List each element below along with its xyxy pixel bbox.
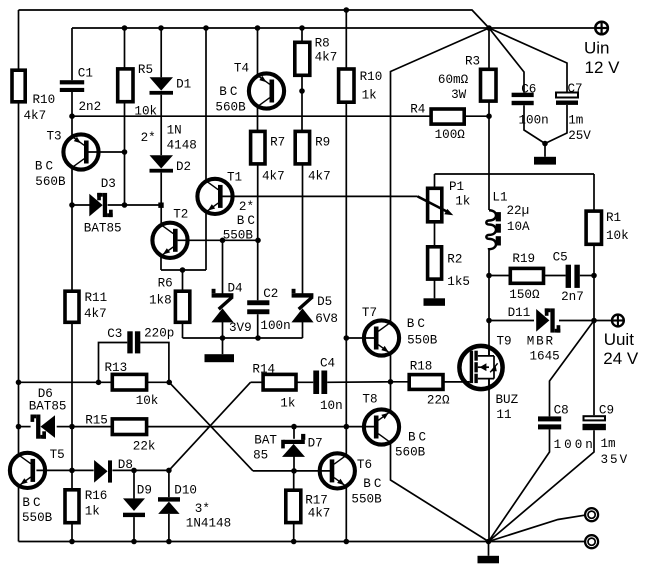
svg-text:BUZ: BUZ (496, 393, 519, 407)
svg-text:35V: 35V (601, 453, 630, 467)
wire D10 top stem (168, 470, 170, 497)
svg-text:MBR: MBR (527, 335, 555, 349)
svg-text:100n: 100n (554, 438, 596, 452)
wire bottom ground rail (19, 541, 585, 543)
svg-text:10k: 10k (134, 105, 157, 119)
wire D4 top stem (222, 240, 224, 293)
wire R16 bottom to ground rail (71, 523, 73, 542)
svg-text:Uuit: Uuit (604, 330, 635, 349)
svg-text:BC: BC (22, 496, 43, 510)
svg-text:R1: R1 (606, 211, 621, 225)
diode D7 BAT85 schottky (253, 434, 323, 463)
wire R1 top stem (593, 174, 595, 211)
wire Uuit node to terminal (594, 320, 612, 322)
wire crossover R13-node to T6 base wire (169, 382, 253, 471)
svg-text:10A: 10A (507, 220, 530, 234)
wire D7 bottom stem (293, 456, 295, 471)
wire left branch T5 emitter to ground rail (18, 487, 20, 542)
capacitor C4 10n (313, 357, 342, 414)
wire T1 collector stem (205, 28, 207, 180)
wire R3 top stem (488, 28, 490, 69)
resistor R9 4k7 (295, 131, 330, 183)
svg-text:Uin: Uin (584, 39, 610, 58)
svg-text:10k: 10k (606, 229, 629, 243)
transistor T1 BC550B (197, 170, 258, 242)
wire R18 to T9 gate (443, 381, 470, 383)
wire D3 anode stem (72, 204, 90, 206)
transistor T3 BC560B (35, 130, 99, 189)
svg-text:3V9: 3V9 (229, 321, 252, 335)
svg-text:24 V: 24 V (603, 349, 639, 368)
capacitor C7 1m 25V electrolytic (556, 82, 591, 143)
svg-text:6V8: 6V8 (315, 312, 338, 326)
wire R8 bottom to R9 top (301, 75, 303, 131)
svg-text:4k7: 4k7 (315, 51, 338, 65)
svg-text:1m: 1m (601, 437, 616, 451)
svg-text:P1: P1 (449, 180, 464, 194)
svg-text:1k5: 1k5 (447, 275, 470, 289)
terminal Uuit +24V (603, 315, 639, 368)
transistor T5 BC550B (10, 448, 65, 525)
wire D2 to T2 collector (160, 173, 162, 225)
label 2* 1N4148 (D1/D2) (141, 124, 197, 153)
wire C2 bottom stem (257, 314, 259, 338)
capacitor C8 100n (538, 403, 596, 452)
wire R4 to R3 junction (464, 115, 489, 117)
resistor R4 100Ohm (410, 102, 465, 142)
resistor R13 10k (105, 361, 159, 408)
wire R5 top stem (124, 28, 126, 69)
wire top border rail (19, 10, 490, 28)
capacitor C9 1m 35V electrolytic (583, 403, 630, 467)
svg-text:85: 85 (253, 448, 268, 462)
wire rail to Uin terminal (489, 27, 595, 29)
wire star to C6 branch (489, 28, 524, 93)
svg-text:R10: R10 (33, 93, 56, 107)
resistor R6 1k8 (149, 277, 190, 323)
wire T6 emitter stem (345, 487, 347, 541)
svg-text:1645: 1645 (530, 350, 560, 364)
wire D9 top stem (133, 470, 135, 498)
svg-text:T4: T4 (234, 62, 249, 76)
wire small-signal ground rail y338 (183, 337, 303, 339)
wire left branch upper (border to R10 top) (18, 10, 20, 70)
wire Uuit node diagonal to C8 (550, 321, 595, 417)
svg-text:11: 11 (496, 408, 511, 422)
svg-text:T6: T6 (357, 458, 372, 472)
wire C4 to driver node (327, 381, 390, 384)
svg-text:550B: 550B (22, 511, 53, 525)
wire R19 to C5 (544, 275, 566, 277)
wire D7 to R17 top (293, 471, 295, 490)
wire left branch R10 bottom to T5 collector (18, 102, 20, 454)
wire T3 base (88, 151, 124, 153)
diode D10 1N4148 (158, 484, 197, 514)
svg-text:R13: R13 (105, 361, 128, 375)
svg-text:1k: 1k (280, 396, 295, 410)
wire R6 bottom stem (182, 322, 184, 338)
wire node y116 (C1/T4 to R4) (72, 115, 431, 117)
wire D9 bottom stem (133, 517, 135, 541)
svg-text:1k8: 1k8 (149, 294, 172, 308)
svg-text:D3: D3 (101, 177, 116, 191)
wire T3 collector to R11 top (71, 168, 73, 292)
wire L1 node to D11 node (488, 276, 490, 321)
svg-text:560B: 560B (35, 175, 66, 189)
wire C6 bottom to Uin ground (524, 105, 545, 143)
ground star (output) (478, 556, 500, 564)
svg-text:550B: 550B (351, 492, 382, 506)
wire D11 anode stem (489, 320, 534, 322)
terminal Uin +12V (584, 22, 620, 77)
svg-text:C8: C8 (554, 403, 569, 417)
svg-text:D5: D5 (317, 295, 332, 309)
transistor T6 BC550B (320, 453, 385, 506)
wire C3 left leg (99, 343, 128, 383)
wire R13 right stub (147, 381, 170, 383)
resistor R19 150Ohm (509, 252, 543, 302)
wire T2 emitter stem (160, 256, 162, 270)
svg-text:R7: R7 (270, 136, 285, 150)
resistor R1 10k (586, 211, 629, 244)
wire Uuit node to C9 top (593, 321, 595, 416)
svg-text:22µ: 22µ (507, 204, 530, 218)
svg-text:BC: BC (35, 159, 56, 173)
svg-text:T3: T3 (47, 130, 62, 144)
wire crossover D8-node to R14 wire (169, 382, 251, 470)
transistor T4 BC560B (215, 62, 284, 115)
svg-text:C2: C2 (263, 287, 278, 301)
svg-text:BAT85: BAT85 (84, 222, 122, 236)
svg-text:550B: 550B (223, 229, 254, 243)
svg-text:R9: R9 (315, 136, 330, 150)
diode D2 1N4148 (150, 155, 192, 174)
svg-text:1N: 1N (167, 124, 182, 138)
transistor T2 BC550B (152, 208, 188, 258)
wire R14 to C4 (297, 381, 314, 383)
zener D5 6V8 (291, 289, 338, 326)
capacitor C3 220p (107, 326, 174, 353)
wire D1 top stem (160, 28, 162, 77)
capacitor C5 2n7 (553, 251, 584, 305)
wire T2 base to R7 column (178, 239, 258, 241)
wire D10 bottom stem (168, 514, 170, 542)
wire L1 node to R19 (489, 275, 510, 277)
svg-text:C6: C6 (521, 83, 536, 97)
svg-text:R10: R10 (360, 70, 383, 84)
inductor L1 22u 10A (486, 190, 530, 249)
svg-text:60mΩ: 60mΩ (438, 73, 469, 87)
svg-text:1k: 1k (362, 88, 377, 102)
wire L1 bottom stem (488, 248, 490, 276)
svg-text:D8: D8 (118, 458, 133, 472)
wire node to R15 (72, 426, 112, 428)
wire T6 collector stem (345, 427, 347, 455)
wire R10 bottom to T8 base node (345, 102, 347, 426)
resistor R15 22k (85, 413, 155, 453)
transistor T8 BC560B (362, 393, 429, 460)
svg-text:C3: C3 (107, 327, 122, 341)
mosfet T9 BUZ11 (459, 335, 518, 423)
wire D8 to D9/D10 nodes (112, 469, 168, 471)
svg-text:C9: C9 (599, 403, 614, 417)
svg-text:D1: D1 (176, 78, 191, 92)
svg-text:25V: 25V (568, 129, 591, 143)
svg-text:560B: 560B (215, 101, 246, 115)
diode D3 BAT85 schottky (84, 177, 122, 236)
wire T9 drain (488, 321, 490, 357)
svg-text:220p: 220p (144, 326, 174, 340)
svg-text:D7: D7 (308, 437, 323, 451)
svg-text:2n7: 2n7 (561, 290, 584, 304)
wire star to upper output terminal (489, 515, 585, 541)
wire R11 bottom through D6 node to R16 top (71, 322, 73, 490)
wire D11 cathode to Uuit node (559, 320, 594, 322)
svg-text:R16: R16 (85, 489, 108, 503)
wire T1 base to P1 wiper (222, 195, 418, 197)
svg-text:R15: R15 (85, 413, 108, 427)
wire R1 bottom to C5 node (593, 244, 595, 275)
svg-text:2n2: 2n2 (79, 100, 102, 114)
resistor R14 1k (252, 363, 296, 411)
svg-text:BC: BC (219, 85, 240, 99)
svg-text:2*: 2* (141, 131, 156, 145)
ground small-signal (D4/C2) (205, 354, 235, 362)
svg-text:R18: R18 (410, 360, 433, 374)
svg-text:R6: R6 (158, 277, 173, 291)
wire C1 bottom to T3 emitter (71, 92, 73, 137)
wire C9 bottom diagonal to star ground (489, 430, 595, 541)
wire R13 left wire y382 (19, 381, 113, 383)
svg-text:22k: 22k (133, 440, 156, 454)
wire R15 to T8 base node (147, 426, 347, 428)
label 3* 1N4148 (D8-D10) (186, 502, 231, 531)
wire R10 top stem (345, 10, 347, 69)
wire P1 top stem (434, 174, 436, 188)
svg-text:1k: 1k (85, 505, 100, 519)
wire T6 base wire (253, 470, 331, 472)
svg-text:BAT85: BAT85 (29, 399, 67, 413)
svg-text:R5: R5 (138, 63, 153, 77)
svg-text:560B: 560B (395, 446, 426, 460)
diode D9 1N4148 (123, 484, 152, 518)
diode D8 1N4148 (94, 458, 133, 483)
svg-text:C4: C4 (320, 357, 335, 371)
svg-text:C1: C1 (78, 67, 93, 81)
svg-text:R4: R4 (410, 102, 425, 116)
resistor R3 60mOhm 3W (438, 55, 496, 102)
terminal output upper (585, 508, 598, 521)
wire feedback top y174 (435, 173, 595, 175)
wire R9 bottom to D5 top (302, 164, 304, 294)
svg-text:R19: R19 (512, 252, 535, 266)
resistor R5 10k (118, 63, 157, 119)
svg-text:BC: BC (407, 317, 428, 331)
wire D4 bottom stem (222, 322, 224, 338)
diode D1 1N4148 (150, 77, 192, 94)
potentiometer P1 1k (418, 180, 471, 222)
wire T1 emitter stem (205, 213, 207, 270)
wire T5 base (36, 469, 72, 471)
wire D6 left stem (19, 426, 31, 428)
resistor R2 1k5 (428, 247, 470, 289)
wire C3 right leg (140, 343, 169, 383)
svg-text:10n: 10n (320, 399, 343, 413)
wire D6 to node (57, 426, 72, 428)
svg-text:C7: C7 (568, 82, 583, 96)
svg-text:R2: R2 (447, 253, 462, 267)
resistor R11 4k7 (65, 291, 107, 322)
svg-text:R3: R3 (465, 55, 480, 69)
wire T8 base (346, 426, 374, 428)
capacitor C6 100n (512, 83, 549, 128)
svg-text:D9: D9 (137, 484, 152, 498)
wire R14 left stub (251, 381, 264, 383)
wire C8 bottom diagonal to star ground (489, 429, 550, 541)
wire T7 base (346, 337, 374, 339)
wire T8 collector diagonal to star ground (391, 443, 489, 541)
svg-text:BAT: BAT (254, 434, 277, 448)
wire T2/T1 emitter link y270 (161, 269, 206, 271)
wire star diagonal to driver column (391, 28, 490, 322)
svg-text:10k: 10k (136, 394, 159, 408)
svg-text:D2: D2 (176, 160, 191, 174)
svg-text:4k7: 4k7 (24, 109, 47, 123)
svg-text:T1: T1 (227, 170, 242, 184)
svg-text:150Ω: 150Ω (509, 288, 540, 302)
wire D3 cathode to node (108, 204, 161, 206)
wire D7 top stem (293, 427, 295, 439)
zener D4 3V9 (211, 282, 251, 336)
wire Uin ground stub (544, 144, 546, 157)
svg-text:R17: R17 (305, 494, 328, 508)
wire C5 node to Uuit node (593, 276, 595, 321)
svg-text:D11: D11 (508, 306, 531, 320)
wire C7 bottom to Uin ground (545, 105, 567, 144)
ground R2 (424, 298, 446, 306)
svg-text:BC: BC (237, 214, 258, 228)
svg-text:T7: T7 (362, 306, 377, 320)
svg-text:T2: T2 (173, 208, 188, 222)
svg-text:12 V: 12 V (585, 58, 621, 77)
svg-text:4k7: 4k7 (262, 170, 285, 184)
terminal output lower (585, 535, 598, 548)
resistor R7 4k7 (251, 131, 286, 183)
svg-text:R8: R8 (315, 36, 330, 50)
svg-text:4k7: 4k7 (308, 507, 331, 521)
wire D4 ground stub (222, 338, 224, 354)
svg-text:T8: T8 (362, 393, 377, 407)
wire star to C7 branch (489, 28, 567, 93)
wire R7 bottom to C2 top (257, 164, 259, 300)
wire R3 bottom stem (488, 102, 490, 117)
wire C4 node to T8 emitter (390, 382, 392, 411)
wire D1 to D2 (160, 95, 162, 156)
svg-text:3*: 3* (195, 502, 210, 516)
wire star ground stub (488, 542, 490, 556)
resistor R10 4k7 (top-left) (12, 70, 55, 123)
ground Uin supply (534, 157, 556, 165)
wire T4 collector to R7 top (257, 107, 259, 131)
svg-text:T9: T9 (497, 335, 512, 349)
svg-text:L1: L1 (492, 190, 507, 204)
svg-text:100Ω: 100Ω (435, 128, 466, 142)
resistor R18 22Ohm (409, 360, 450, 408)
wire D5 bottom stem (302, 322, 304, 338)
wire T9 source to star ground (488, 379, 490, 542)
svg-text:4k7: 4k7 (308, 170, 331, 184)
wire R5 bottom to D3 node (124, 102, 126, 205)
capacitor C2 100n (247, 287, 290, 333)
wire T7 emitter to C4 node (390, 354, 392, 382)
diode D6 BAT85 schottky (29, 387, 67, 439)
wire R17 bottom stem (293, 523, 295, 542)
svg-text:4k7: 4k7 (84, 307, 107, 321)
svg-text:1N4148: 1N4148 (186, 517, 231, 531)
svg-text:3W: 3W (451, 88, 467, 102)
wire P1 to R2 (434, 222, 436, 247)
wire T4 emitter stem (257, 28, 259, 75)
svg-text:R14: R14 (252, 363, 275, 377)
resistor R16 1k (65, 489, 107, 523)
svg-text:C5: C5 (553, 251, 568, 265)
svg-text:2*: 2* (239, 200, 254, 214)
svg-text:1k: 1k (455, 195, 470, 209)
svg-text:D10: D10 (174, 484, 197, 498)
wire T5 base node to D8 (72, 469, 94, 471)
wire C5 to R1 node (580, 275, 594, 277)
wire +12V rail y28 (72, 27, 489, 29)
svg-text:BC: BC (363, 477, 384, 491)
svg-text:BC: BC (408, 430, 429, 444)
resistor R10 1k (driver bias) (339, 69, 383, 102)
svg-text:22Ω: 22Ω (427, 393, 450, 407)
svg-text:D4: D4 (228, 282, 243, 296)
svg-text:4148: 4148 (167, 138, 197, 152)
resistor R8 4k7 (295, 36, 337, 75)
svg-text:100n: 100n (519, 113, 549, 127)
svg-text:550B: 550B (407, 333, 438, 347)
wire L1 top stem (488, 116, 490, 210)
svg-text:1m: 1m (568, 113, 583, 127)
transistor T7 BC550B (362, 306, 438, 356)
wire R2 to ground (434, 279, 436, 298)
diode D11 MBR1645 schottky (508, 306, 561, 364)
capacitor C1 2n2 (60, 67, 101, 114)
wire C1 top leg (71, 28, 73, 80)
svg-text:100n: 100n (260, 319, 290, 333)
wire R8 top stem (301, 28, 303, 42)
wire R6 top stem (182, 270, 184, 291)
svg-text:T5: T5 (50, 448, 65, 462)
resistor R17 4k7 (286, 490, 331, 522)
wire C4 node to R18 (391, 381, 410, 383)
svg-text:R11: R11 (85, 291, 108, 305)
